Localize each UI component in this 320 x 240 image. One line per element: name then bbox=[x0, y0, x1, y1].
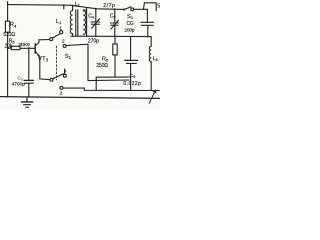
switch S1 upper pole bbox=[50, 38, 53, 41]
node top rail tap bbox=[63, 5, 65, 9]
switch S1 upper contact 2 bbox=[63, 45, 66, 48]
wire mystery vertical bbox=[88, 44, 129, 80]
node base junction bbox=[28, 47, 30, 49]
svg-text:2: 2 bbox=[62, 38, 65, 44]
wire left rail bbox=[7, 2, 9, 97]
svg-text:5: 5 bbox=[157, 3, 160, 9]
inductor L1 winding bbox=[70, 5, 72, 36]
resistor R4 bbox=[5, 21, 9, 32]
arrow output bbox=[149, 91, 155, 103]
node C6 bottom bbox=[147, 36, 149, 38]
svg-text:C4: C4 bbox=[88, 14, 94, 20]
wire output bbox=[63, 88, 159, 90]
capacitor C5 trimmer bbox=[114, 9, 116, 23]
switch S1 upper contact 1 bbox=[60, 31, 63, 34]
switch S1 upper lever bbox=[52, 34, 60, 38]
wire R6 bottom bbox=[96, 76, 130, 78]
wire contact2 to right bbox=[66, 44, 88, 45]
svg-text:250Ω: 250Ω bbox=[96, 63, 108, 69]
svg-text:510Ω: 510Ω bbox=[3, 32, 15, 38]
node C4 top bbox=[95, 8, 97, 10]
wire terminal 5 stub bbox=[143, 3, 156, 11]
wire emitter bbox=[40, 56, 49, 79]
wire L2 lead bbox=[86, 8, 88, 36]
switch S1 lower lever bbox=[53, 74, 64, 79]
svg-text:2/7p: 2/7p bbox=[103, 3, 115, 9]
svg-text:S3: S3 bbox=[127, 14, 133, 20]
wire middle rail bbox=[71, 35, 151, 37]
svg-text:20k: 20k bbox=[5, 44, 13, 50]
svg-text:0.022p: 0.022p bbox=[123, 81, 141, 87]
ground bbox=[26, 97, 28, 102]
svg-text:2: 2 bbox=[60, 90, 63, 96]
switch S1 lower contact 1 bbox=[63, 74, 66, 77]
svg-text:S1: S1 bbox=[65, 54, 72, 60]
capacitor C3 bbox=[28, 48, 30, 80]
transistor Q VT3 bbox=[35, 43, 40, 57]
svg-text:VT3: VT3 bbox=[38, 56, 49, 62]
svg-text:L1: L1 bbox=[56, 19, 61, 25]
svg-text:L4: L4 bbox=[153, 56, 158, 62]
svg-text:270p: 270p bbox=[88, 39, 99, 45]
node C9 out bbox=[130, 90, 132, 92]
capacitor C4 trimmer bbox=[95, 9, 97, 22]
node C4 bottom bbox=[95, 35, 97, 37]
svg-text:C9: C9 bbox=[130, 73, 136, 79]
svg-text:L2: L2 bbox=[75, 2, 80, 8]
transistor emitter arrowhead bbox=[37, 54, 40, 56]
wire base node bbox=[20, 47, 35, 49]
inductor L4 bbox=[149, 37, 151, 91]
wire bottom rail bbox=[0, 97, 160, 99]
inductor L2 winding bbox=[83, 10, 85, 34]
wire R5 left lead bbox=[8, 47, 12, 49]
resistor R6 bbox=[114, 36, 116, 44]
svg-text:C3: C3 bbox=[17, 75, 22, 81]
svg-text:1: 1 bbox=[59, 25, 62, 31]
svg-text:CG: CG bbox=[127, 21, 134, 27]
capacitor C6 bbox=[141, 21, 154, 23]
svg-text:R6: R6 bbox=[102, 57, 109, 63]
link dashed gang bbox=[55, 46, 57, 80]
wire collector bbox=[39, 40, 50, 43]
switch S1 lower pole bbox=[50, 78, 53, 81]
node C5 top bbox=[114, 8, 116, 10]
node C5 bottom bbox=[114, 36, 116, 38]
resistor R5 bbox=[11, 46, 20, 49]
svg-text:4700p: 4700p bbox=[12, 81, 26, 87]
wire top right bbox=[134, 9, 148, 21]
transformer polarity star bbox=[83, 9, 85, 12]
node rail R5 junction bbox=[7, 47, 9, 49]
svg-text:R4: R4 bbox=[10, 22, 17, 28]
capacitor C9 bbox=[130, 37, 132, 61]
svg-text:1: 1 bbox=[64, 68, 67, 74]
terminal 2 bbox=[60, 86, 63, 89]
svg-text:200p: 200p bbox=[124, 28, 134, 34]
switch S3 bbox=[123, 8, 125, 10]
wire top rail bbox=[8, 5, 124, 10]
transformer core bbox=[75, 10, 77, 36]
svg-text:3DK9: 3DK9 bbox=[18, 42, 30, 48]
wire contact1 stub bbox=[64, 69, 66, 74]
